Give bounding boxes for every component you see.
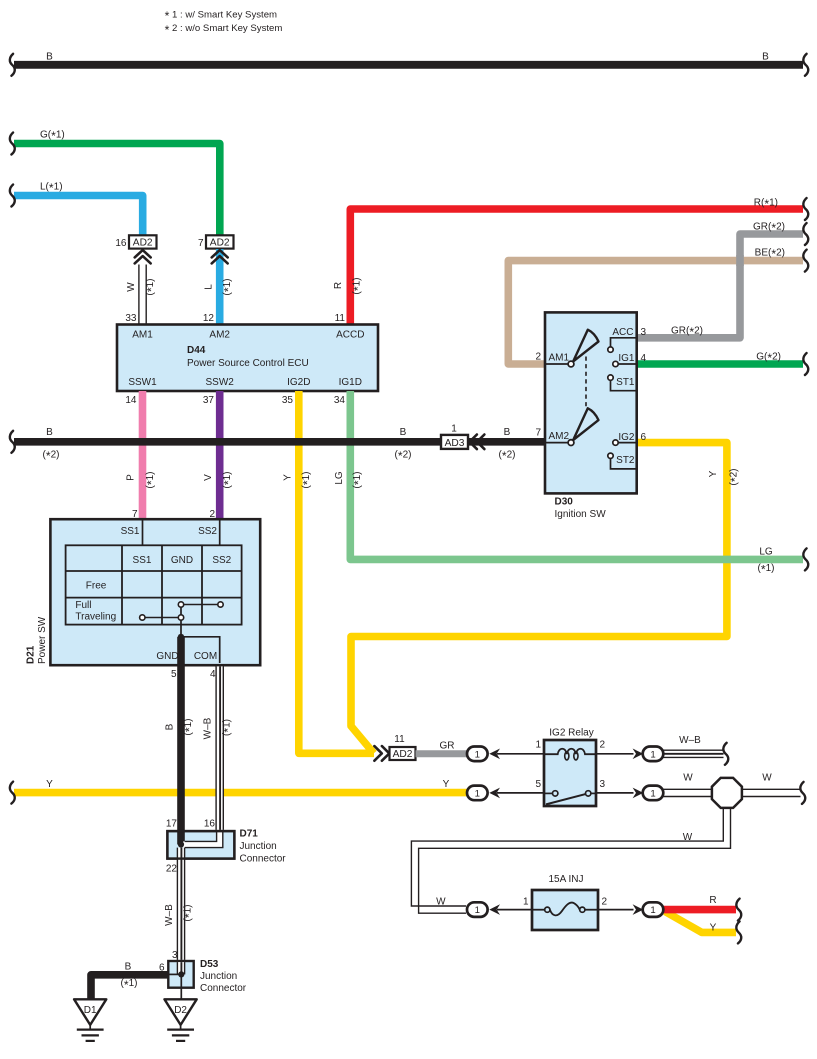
svg-text:2: 2 xyxy=(209,509,215,520)
IG2 Relay box xyxy=(544,740,596,806)
svg-text:GR: GR xyxy=(440,741,455,752)
svg-text:R: R xyxy=(709,895,716,906)
D30 dashed link xyxy=(585,357,587,407)
D30 ACC contact xyxy=(608,327,637,352)
svg-text:IG1: IG1 xyxy=(618,353,635,364)
svg-text:* 2 : w/o Smart Key System: * 2 : w/o Smart Key System xyxy=(165,23,283,37)
gray over beige crossing xyxy=(736,255,744,266)
svg-text:Y: Y xyxy=(708,470,719,477)
svg-text:ST2: ST2 xyxy=(616,455,635,466)
D21 COM branch xyxy=(181,637,220,663)
svg-text:SSW1: SSW1 xyxy=(128,377,157,388)
ground D2 xyxy=(165,999,197,1041)
svg-text:1: 1 xyxy=(535,739,541,750)
arrow left Y row xyxy=(489,788,500,799)
connector AD2 pin7 xyxy=(206,235,234,248)
svg-text:Connector: Connector xyxy=(200,983,247,994)
wire G(*1) xyxy=(14,144,220,236)
svg-text:5: 5 xyxy=(535,779,541,790)
svg-text:Junction: Junction xyxy=(240,841,277,852)
wire L (AM2) xyxy=(216,249,224,326)
D71 internal bus xyxy=(181,832,223,848)
svg-text:17: 17 xyxy=(166,819,178,830)
svg-text:W–B: W–B xyxy=(203,717,214,739)
wire W down from octagon xyxy=(411,806,730,913)
wire B (GND to D71) xyxy=(177,637,185,845)
wire W-B (D71 to D53) xyxy=(164,848,196,960)
svg-text:* 1 : w/ Smart Key System: * 1 : w/ Smart Key System xyxy=(165,9,277,23)
svg-text:W–B: W–B xyxy=(164,904,175,926)
ground D1 xyxy=(74,999,106,1041)
arrow left fuse-in xyxy=(489,904,500,915)
svg-text:6: 6 xyxy=(641,432,647,443)
svg-text:Y: Y xyxy=(46,779,53,790)
svg-text:W: W xyxy=(436,897,446,908)
svg-text:AM2: AM2 xyxy=(549,431,570,442)
relay switch xyxy=(544,791,596,805)
D21 SS1 pin stub xyxy=(142,519,144,545)
svg-text:2: 2 xyxy=(535,351,541,362)
ECU D44 box xyxy=(117,325,378,392)
wire from relay pin3 xyxy=(596,792,634,794)
svg-text:(*2): (*2) xyxy=(43,449,60,463)
svg-text:ACC: ACC xyxy=(612,327,633,338)
wire W after octagon xyxy=(743,789,801,796)
svg-text:Y: Y xyxy=(443,779,450,790)
connector AD3 xyxy=(441,435,468,449)
octagon node xyxy=(712,778,742,808)
wire Y(*2) from IG2 xyxy=(351,443,727,754)
D53 internal links xyxy=(178,962,184,974)
svg-text:3: 3 xyxy=(600,779,606,790)
svg-text:GND: GND xyxy=(171,555,193,566)
connector oval pin2 xyxy=(643,747,664,762)
svg-text:D30: D30 xyxy=(555,496,574,507)
svg-text:(*1): (*1) xyxy=(351,278,365,295)
arrow right pin3 xyxy=(633,788,644,799)
relay coil xyxy=(544,749,596,760)
D30 ST2 contact xyxy=(608,453,637,469)
svg-text:12: 12 xyxy=(203,313,215,324)
wire R (fuse out) xyxy=(663,906,736,914)
svg-text:(*1): (*1) xyxy=(301,472,315,489)
svg-text:D71: D71 xyxy=(240,828,259,839)
svg-text:ACCD: ACCD xyxy=(336,330,364,341)
svg-text:4: 4 xyxy=(641,353,647,364)
svg-text:GND: GND xyxy=(156,651,178,662)
chevron under AD2 pin7 xyxy=(212,250,228,263)
svg-text:AD2: AD2 xyxy=(393,749,413,760)
svg-text:(*1): (*1) xyxy=(182,905,196,922)
D21 contact GND-SS2 xyxy=(178,602,223,607)
svg-text:P: P xyxy=(126,474,137,481)
svg-text:IG2: IG2 xyxy=(618,432,635,443)
wire W-B (relay out) xyxy=(663,750,723,757)
D71 junction dot xyxy=(178,841,184,847)
svg-text:14: 14 xyxy=(125,395,137,406)
svg-text:(*2): (*2) xyxy=(395,449,412,463)
connector oval GR row xyxy=(467,747,488,762)
wire W (AM1) xyxy=(138,265,140,327)
svg-text:AM1: AM1 xyxy=(549,352,570,363)
wire GR(*2) xyxy=(637,234,803,338)
D21 contact SS1-GND xyxy=(140,615,184,620)
svg-text:(*1): (*1) xyxy=(222,279,236,296)
svg-text:B: B xyxy=(125,962,132,973)
svg-text:SS2: SS2 xyxy=(198,526,217,537)
wire from fuse pin2 xyxy=(598,909,634,911)
svg-text:15A INJ: 15A INJ xyxy=(548,874,583,885)
svg-text:6: 6 xyxy=(159,962,165,973)
chevron after AD3 xyxy=(470,435,485,450)
svg-text:2: 2 xyxy=(602,896,608,907)
wire GR xyxy=(416,750,468,757)
svg-text:22: 22 xyxy=(166,864,178,875)
wire W-B (COM to D71) xyxy=(203,666,236,830)
svg-text:SS1: SS1 xyxy=(133,555,152,566)
svg-text:11: 11 xyxy=(335,313,346,324)
svg-text:16: 16 xyxy=(115,238,127,249)
svg-text:COM: COM xyxy=(194,651,217,662)
svg-text:(*1): (*1) xyxy=(183,719,197,736)
svg-text:B: B xyxy=(762,51,769,62)
D30 IG2 contact xyxy=(613,432,637,446)
svg-text:2: 2 xyxy=(600,739,606,750)
svg-text:W: W xyxy=(683,832,693,843)
svg-text:B: B xyxy=(46,427,53,438)
svg-text:Ignition SW: Ignition SW xyxy=(555,509,607,520)
fuse element xyxy=(532,903,598,916)
svg-text:11: 11 xyxy=(394,734,405,745)
wire Y branch (fuse out) xyxy=(665,912,736,933)
svg-text:Traveling: Traveling xyxy=(75,612,116,623)
svg-text:AM1: AM1 xyxy=(132,330,153,341)
D30 IG1 contact xyxy=(613,353,637,366)
wire to relay pin5 xyxy=(497,792,546,794)
svg-text:(*1): (*1) xyxy=(121,978,138,992)
svg-text:35: 35 xyxy=(282,395,294,406)
svg-text:1: 1 xyxy=(451,424,457,435)
svg-text:AM2: AM2 xyxy=(209,330,230,341)
svg-text:7: 7 xyxy=(132,509,138,520)
D30 AM1 contact with lever xyxy=(545,330,599,367)
svg-text:D1: D1 xyxy=(84,1005,97,1016)
wire V SSW2 xyxy=(216,391,224,520)
svg-text:(*2): (*2) xyxy=(499,449,516,463)
wire P SSW1 xyxy=(139,391,147,520)
svg-text:Power SW: Power SW xyxy=(37,616,48,664)
svg-text:D2: D2 xyxy=(174,1005,187,1016)
svg-text:W–B: W–B xyxy=(679,735,701,746)
svg-text:3: 3 xyxy=(172,950,178,961)
svg-text:Y: Y xyxy=(710,923,717,934)
svg-text:AD3: AD3 xyxy=(445,438,465,449)
arrow right fuse-out xyxy=(633,904,644,915)
ignition switch D30 box xyxy=(545,312,637,493)
svg-text:AD2: AD2 xyxy=(133,238,153,249)
chevron into AD2 pin11 xyxy=(374,746,389,761)
svg-text:W: W xyxy=(683,772,693,783)
D30 AM2 contact with lever xyxy=(545,408,599,445)
svg-text:LG: LG xyxy=(334,471,345,485)
svg-text:D53: D53 xyxy=(200,959,219,970)
arrow right pin2 xyxy=(633,749,644,760)
connector oval Y row xyxy=(467,786,488,801)
svg-text:(*1): (*1) xyxy=(222,472,236,489)
wire W to octagon xyxy=(663,789,711,796)
D21 GND column link xyxy=(180,605,182,638)
svg-text:(*1): (*1) xyxy=(145,472,159,489)
svg-text:L: L xyxy=(204,284,215,290)
svg-text:IG2 Relay: IG2 Relay xyxy=(549,727,593,738)
svg-text:Junction: Junction xyxy=(200,971,237,982)
chevron under AD2 pin16 xyxy=(135,250,151,263)
svg-text:Connector: Connector xyxy=(240,854,287,865)
wire to fuse pin1 xyxy=(497,909,534,911)
svg-text:V: V xyxy=(203,474,214,481)
svg-text:R: R xyxy=(333,282,344,289)
svg-text:SS1: SS1 xyxy=(121,526,140,537)
svg-text:(*1): (*1) xyxy=(221,719,235,736)
svg-text:LG: LG xyxy=(759,546,773,557)
svg-text:ST1: ST1 xyxy=(616,377,635,388)
svg-text:1: 1 xyxy=(523,896,529,907)
fuse 15A INJ box xyxy=(532,890,598,930)
wire Y IG2D xyxy=(299,391,374,753)
wire LG IG1D xyxy=(350,391,803,559)
svg-text:(*1): (*1) xyxy=(758,563,775,577)
svg-text:4: 4 xyxy=(210,669,216,680)
wire from relay pin2 xyxy=(596,753,634,755)
svg-text:B: B xyxy=(46,51,53,62)
connector oval fuse-in xyxy=(467,902,488,917)
wire L(*1) xyxy=(14,196,143,236)
svg-text:7: 7 xyxy=(198,238,204,249)
svg-text:Power Source Control ECU: Power Source Control ECU xyxy=(187,358,309,369)
svg-text:W: W xyxy=(126,282,137,292)
wire to relay pin1 xyxy=(497,753,546,755)
svg-text:37: 37 xyxy=(203,395,215,406)
svg-text:34: 34 xyxy=(334,395,346,406)
svg-text:Y: Y xyxy=(283,474,294,481)
junction connector D53 box xyxy=(168,961,193,988)
svg-text:B: B xyxy=(400,427,407,438)
connector oval pin3 xyxy=(643,786,664,801)
svg-text:SSW2: SSW2 xyxy=(206,377,235,388)
connector AD2 pin11 xyxy=(390,747,416,760)
svg-text:SS2: SS2 xyxy=(212,555,231,566)
svg-text:IG2D: IG2D xyxy=(287,377,310,388)
svg-text:33: 33 xyxy=(125,313,137,324)
D21 contact table xyxy=(66,545,242,624)
svg-text:3: 3 xyxy=(641,327,647,338)
D30 ST1 contact xyxy=(608,375,637,391)
connector oval fuse-out xyxy=(643,902,664,917)
svg-text:B: B xyxy=(165,723,176,730)
svg-text:Free: Free xyxy=(86,581,107,592)
D21 SS2 pin stub xyxy=(219,519,221,545)
svg-text:B: B xyxy=(504,427,511,438)
svg-text:W: W xyxy=(762,772,772,783)
svg-text:(*1): (*1) xyxy=(145,279,159,296)
svg-text:Full: Full xyxy=(75,600,91,611)
wire B to D53 xyxy=(91,975,168,1000)
svg-text:D44: D44 xyxy=(187,345,206,356)
wire B(*2) left segment xyxy=(14,438,442,446)
svg-text:AD2: AD2 xyxy=(210,238,230,249)
arrow left GR row xyxy=(489,749,500,760)
junction connector D71 box xyxy=(167,831,234,859)
wire B (top ground bus) xyxy=(14,61,803,69)
svg-text:7: 7 xyxy=(535,428,541,439)
wire B(*2) right segment xyxy=(468,438,546,446)
wire BE(*2) xyxy=(508,261,803,364)
svg-text:(*1): (*1) xyxy=(352,472,366,489)
svg-text:16: 16 xyxy=(204,819,216,830)
D21 junction dot xyxy=(178,634,184,640)
svg-text:5: 5 xyxy=(171,669,177,680)
svg-text:(*2): (*2) xyxy=(728,469,742,486)
wire G(*2) xyxy=(637,360,803,368)
D53 junction dot xyxy=(178,971,184,977)
wire R(*1) xyxy=(350,209,803,326)
wire Y (middle bus) xyxy=(14,789,467,797)
D71 border redraw xyxy=(167,831,234,859)
power switch D21 box xyxy=(50,519,260,665)
svg-text:IG1D: IG1D xyxy=(339,377,362,388)
connector AD2 pin16 xyxy=(129,235,157,248)
svg-text:D21: D21 xyxy=(26,645,37,664)
